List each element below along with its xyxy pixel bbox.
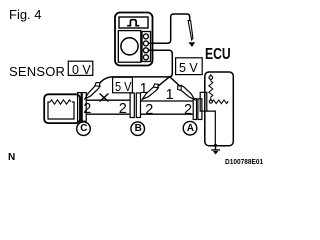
node B circle xyxy=(131,122,145,136)
wire from jack3 down to probe junction xyxy=(148,50,172,76)
ECU junction node xyxy=(209,100,212,103)
value box 0V xyxy=(68,58,202,93)
note N xyxy=(8,152,15,163)
jack 4 xyxy=(143,55,148,60)
sensor internal resistor loop xyxy=(48,102,74,119)
drawing code xyxy=(225,157,263,166)
pin 2 left of B xyxy=(119,101,127,117)
wire: probe junction to right V probe tip xyxy=(170,77,195,100)
ECU series resistor (horizontal zigzag) xyxy=(212,100,228,104)
wire from probe junction left to sensor-side probe xyxy=(87,77,170,96)
ECU label xyxy=(205,46,231,64)
pin 2 left of A xyxy=(184,102,192,118)
sensor box xyxy=(44,94,80,123)
connector block C xyxy=(78,93,82,122)
pin 2 at C xyxy=(83,101,91,117)
probe P1 (ECU 5V terminal probe) xyxy=(188,21,195,47)
jack 3 xyxy=(143,48,148,53)
letter C xyxy=(80,123,87,134)
value box 5V (harness) xyxy=(113,77,133,93)
5 V reading ECU xyxy=(179,61,198,75)
sensor resistor zigzag xyxy=(50,100,71,104)
multimeter dial xyxy=(121,38,138,55)
jack 2 xyxy=(143,41,148,46)
value box 5V (ECU) xyxy=(176,58,203,75)
letter A xyxy=(187,123,194,134)
harness band C-B xyxy=(86,100,130,114)
node A circle xyxy=(183,121,197,135)
pin 1 near 5V box xyxy=(140,81,148,97)
5 V reading harness xyxy=(115,80,132,94)
harness band B-A xyxy=(141,101,194,114)
probe P4 (right V probe onto A) xyxy=(176,83,196,102)
ECU pin box xyxy=(200,92,207,111)
multimeter display pulse glyph xyxy=(127,20,139,26)
pin 2 right of B xyxy=(145,102,153,118)
connector block A xyxy=(193,99,196,120)
ECU box xyxy=(205,72,234,146)
multimeter body xyxy=(115,13,153,66)
connector block B xyxy=(130,93,134,118)
0 V reading xyxy=(72,63,91,77)
jack 1 xyxy=(143,34,148,39)
sensor label xyxy=(9,64,65,79)
ECU pull-up resistor (vertical zigzag) xyxy=(209,79,213,99)
ECU 5V terminal xyxy=(210,74,212,76)
node C circle xyxy=(77,121,197,135)
break mark X xyxy=(100,94,109,102)
pin 1 on wire to A xyxy=(166,87,174,103)
wire: probe junction to left V probe tip xyxy=(142,77,169,100)
letter B xyxy=(135,123,142,134)
ground junction dot xyxy=(214,144,217,147)
multimeter dial panel xyxy=(118,31,141,63)
ECU internal ground wire xyxy=(207,111,216,145)
probe P3 (left V probe onto B) xyxy=(140,82,161,101)
probe P2 (sensor connector probe) xyxy=(82,81,102,100)
ground symbol xyxy=(211,147,220,150)
multimeter display xyxy=(119,17,148,28)
multimeter jack strip xyxy=(142,32,151,62)
wire from jack2 to top probe xyxy=(148,14,189,43)
figure caption xyxy=(9,7,42,22)
